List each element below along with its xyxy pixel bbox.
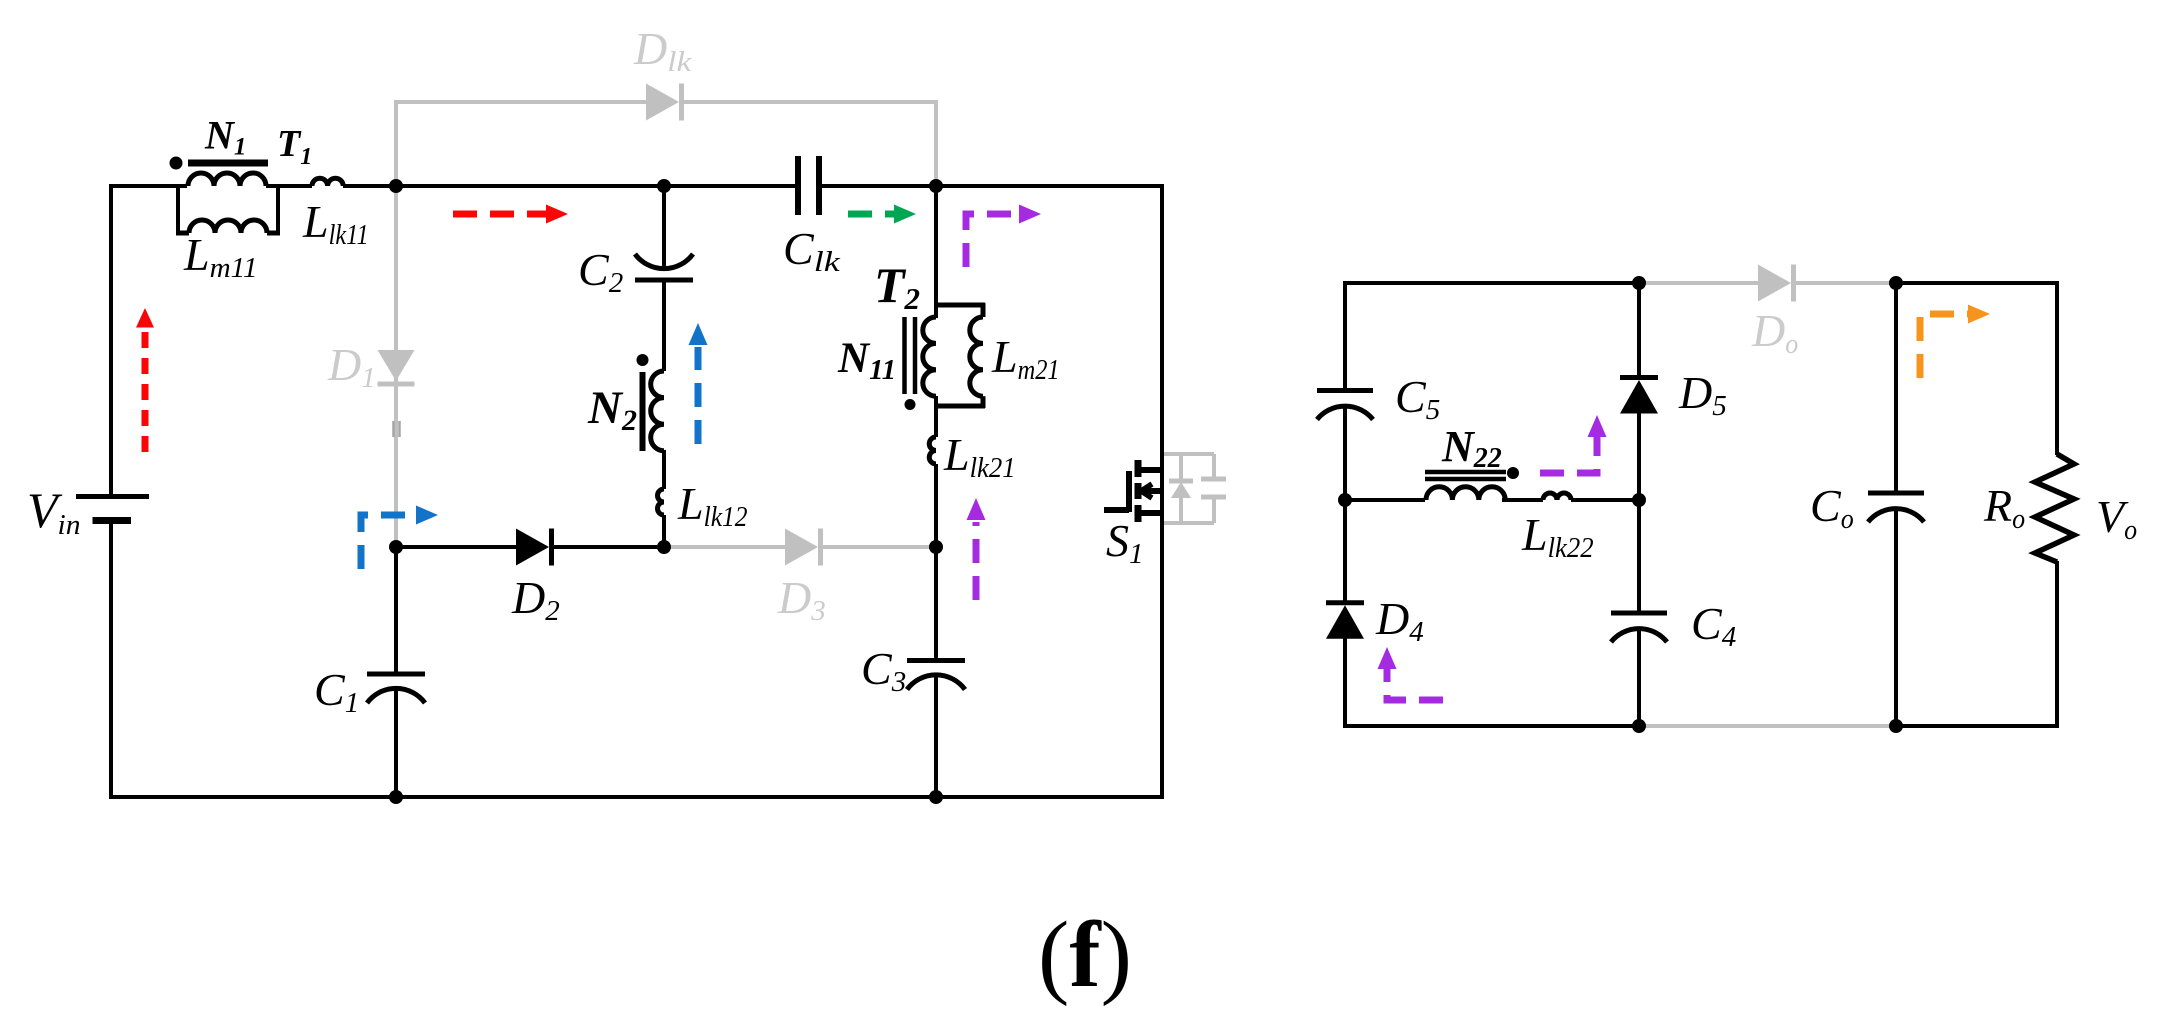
wire: top rail left segment <box>109 184 187 188</box>
diode D3 (gray) <box>785 529 821 566</box>
wire: mid node down to C4 <box>1637 500 1641 613</box>
node top Co branch <box>1889 276 1903 290</box>
label C3 <box>861 643 906 698</box>
svg-text:D1: D1 <box>327 339 376 394</box>
wire: right rail top (Ro lead) <box>2055 281 2059 455</box>
wire: C3 node down to C3 <box>934 547 938 660</box>
diode D4 (black, pointing up) <box>1326 603 1364 639</box>
label C1 <box>314 664 359 719</box>
label Llk12 <box>677 478 748 533</box>
svg-text:Vin: Vin <box>27 482 81 541</box>
T1 polarity dot <box>170 157 183 170</box>
wire: top rail to node A <box>343 184 795 188</box>
node mid D5/C4 <box>1632 493 1646 507</box>
winding N2 <box>651 371 664 451</box>
svg-text:Llk21: Llk21 <box>943 429 1016 484</box>
purple current arrow (C3 branch, vertical) <box>967 498 986 600</box>
svg-text:D2: D2 <box>511 572 560 627</box>
N2 polarity dot <box>637 354 649 366</box>
node top D5 branch <box>1632 276 1646 290</box>
label Vo <box>2096 491 2137 546</box>
voltage source Vin <box>76 497 149 521</box>
wire: D5 to mid node <box>1637 413 1641 500</box>
node bottom C4 branch <box>1632 719 1646 733</box>
blue current arrow (mid-left, L-shaped) <box>361 506 438 570</box>
label N11 <box>837 335 896 386</box>
capacitor C2 <box>635 254 693 280</box>
node bottom Co branch <box>1889 719 1903 733</box>
wire: gray top segment to Do <box>1639 281 1758 285</box>
svg-text:N22: N22 <box>1441 422 1502 474</box>
wire: node B down to C2 <box>662 186 666 270</box>
wire: top rail Co node to Ro <box>1896 281 2059 285</box>
inductor Llk22 <box>1543 493 1571 500</box>
wire: Llk21 to C3 node <box>934 464 938 547</box>
wire: D5 branch top lead <box>1637 283 1641 377</box>
wire: top rail node C to right rail <box>822 184 1164 188</box>
svg-text:T2: T2 <box>874 257 920 316</box>
caption (f) <box>1038 903 1132 1007</box>
capacitor C1 <box>367 674 425 703</box>
node mid left rail <box>1338 493 1352 507</box>
label Llk11 <box>302 196 369 251</box>
label D3 <box>777 572 826 627</box>
transformer T1 winding N1 <box>188 173 266 186</box>
svg-text:D4: D4 <box>1375 593 1424 648</box>
label C2 <box>578 244 623 299</box>
inductor Llk21 <box>929 437 936 464</box>
inductor Lm21 (right coil loop) <box>936 303 985 408</box>
wire: gray top loop right vertical <box>934 100 938 186</box>
wire: bottom rail <box>109 795 1164 799</box>
svg-text:Vo: Vo <box>2096 491 2137 546</box>
svg-text:Ro: Ro <box>1983 480 2025 535</box>
label D1 <box>327 339 376 394</box>
wire: gray top loop horizontal (left) <box>394 100 646 104</box>
wire: bottom rail right black segment <box>1896 724 2059 728</box>
svg-text:Co: Co <box>1810 480 1854 535</box>
node bottom-left (C1/bottom rail) <box>389 790 403 804</box>
label C4 <box>1691 598 1736 653</box>
green current arrow (through Clk) <box>848 205 916 224</box>
wire: gray top loop horizontal (right) <box>683 100 936 104</box>
wire: N22 to Llk22 <box>1502 498 1543 502</box>
svg-text:N2: N2 <box>587 382 637 437</box>
wire: mid-left node down to C1 <box>394 547 398 674</box>
label C5 <box>1395 371 1440 426</box>
transformer T2 winding (left coil) <box>923 317 936 396</box>
diode D2 <box>516 529 552 566</box>
wire: Co branch top lead <box>1894 283 1898 493</box>
wire: Llk12 to mid node <box>662 515 666 547</box>
wire: right rail <box>1160 184 1164 799</box>
wire: right circuit bottom rail (left black) <box>1343 724 1639 728</box>
wire: right circuit top rail (left black) <box>1343 281 1639 285</box>
svg-text:Llk12: Llk12 <box>677 478 748 533</box>
node mid-left (D1/C1/D2) <box>389 540 403 554</box>
capacitor Co <box>1868 493 1924 522</box>
purple current arrow (to S1, L-shaped) <box>966 205 1041 268</box>
wire: C3 to bottom rail <box>934 675 938 797</box>
inductor Llk12 <box>658 489 665 515</box>
label N2 <box>587 382 637 437</box>
wire: mid node to D2 <box>396 545 516 549</box>
label Llk22 <box>1521 509 1594 564</box>
wire: right rail bottom (Ro lead) <box>2055 561 2059 728</box>
label Ro <box>1983 480 2025 535</box>
wire: C2 to N2 <box>662 280 666 371</box>
svg-text:C1: C1 <box>314 664 359 719</box>
svg-text:(f): (f) <box>1038 903 1132 1007</box>
wire: left rail lower (Vin bottom lead) <box>109 521 113 800</box>
wire: N2 to Llk12 <box>662 450 666 489</box>
wire: D4 to bottom rail <box>1343 638 1347 728</box>
svg-text:Clk: Clk <box>783 223 841 278</box>
svg-text:Llk22: Llk22 <box>1521 509 1594 564</box>
wire: Co to bottom rail <box>1894 507 1898 726</box>
label Vin <box>27 482 81 541</box>
label D2 <box>511 572 560 627</box>
node C (top rail / T2 branch) <box>929 179 943 193</box>
label T1 <box>277 123 312 170</box>
diode D5 (black, pointing up) <box>1620 378 1658 414</box>
wire: mid rail left segment <box>1345 498 1425 502</box>
capacitor Clk <box>798 156 819 215</box>
purple current arrow (near D4, L-shaped) <box>1378 647 1444 700</box>
node mid-right (Llk21/D3/C3) <box>929 540 943 554</box>
svg-text:Dlk: Dlk <box>633 23 693 78</box>
node bottom-right (C3/bottom rail) <box>929 790 943 804</box>
svg-text:C3: C3 <box>861 643 906 698</box>
purple current arrow (above N22, L-shaped) <box>1540 415 1607 473</box>
wire: gray mid segment D3 to C3 node <box>823 545 936 549</box>
label Lm11 <box>183 229 258 284</box>
svg-text:N1: N1 <box>204 113 246 161</box>
svg-text:T1: T1 <box>277 123 312 170</box>
label Lm21 <box>991 331 1060 386</box>
wire: left rail upper (Vin top lead) <box>109 184 113 494</box>
diode D1 (gray, pointing down) <box>378 350 415 384</box>
S1 body diode + capacitance (gray) <box>1164 454 1226 523</box>
svg-text:C2: C2 <box>578 244 623 299</box>
svg-text:Llk11: Llk11 <box>302 196 369 251</box>
node A (top rail / D1 branch) <box>389 179 403 193</box>
inductor Lm11 (magnetizing, parallel loop) <box>176 186 280 233</box>
wire: gray top segment Do to Co node <box>1795 281 1896 285</box>
T1 core bar <box>188 160 268 167</box>
svg-text:C5: C5 <box>1395 371 1440 426</box>
svg-text:N11: N11 <box>837 335 896 386</box>
T2 core double bars <box>905 317 916 394</box>
red current arrow (input loop, vertical) <box>136 308 154 452</box>
label N1 <box>204 113 246 161</box>
resistor Ro <box>2035 454 2074 562</box>
wire: D2 to node B2 <box>554 545 664 549</box>
gray break tick on D1 branch <box>394 421 400 437</box>
svg-text:C4: C4 <box>1691 598 1736 653</box>
svg-text:Do: Do <box>1751 305 1798 360</box>
wire: C1 to bottom rail <box>394 689 398 797</box>
diode Dlk (gray) <box>646 84 682 121</box>
MOSFET S1 <box>1104 460 1163 522</box>
svg-text:Lm11: Lm11 <box>183 229 258 284</box>
diode Do (gray) <box>1758 265 1794 302</box>
wire: node C down to T2 <box>934 186 938 318</box>
label Clk <box>783 223 841 278</box>
wire: C4 to bottom rail <box>1637 628 1641 726</box>
svg-text:S1: S1 <box>1106 515 1144 570</box>
svg-text:Lm21: Lm21 <box>991 331 1060 386</box>
label D5 <box>1678 367 1727 422</box>
wire: bottom rail gray segment <box>1639 724 1896 728</box>
node B (top rail / C2 branch) <box>657 179 671 193</box>
label Llk21 <box>943 429 1016 484</box>
blue current arrow (N2 branch, vertical) <box>689 323 708 444</box>
label T2 <box>874 257 920 316</box>
red current arrow (top rail, horizontal) <box>453 205 568 224</box>
label S1 <box>1106 515 1144 570</box>
capacitor C3 <box>907 661 965 690</box>
orange current arrow (output, L-shaped) <box>1920 305 1990 379</box>
N2 core bar <box>640 372 646 451</box>
wire between N1 and Llk11 <box>266 184 312 188</box>
wire: Llk22 to mid node <box>1571 498 1639 502</box>
capacitor C5 <box>1317 391 1373 420</box>
winding N22 <box>1426 487 1505 500</box>
svg-text:D3: D3 <box>777 572 826 627</box>
label Co <box>1810 480 1854 535</box>
wire: gray D1 branch vertical <box>394 102 398 547</box>
label D4 <box>1375 593 1424 648</box>
svg-text:D5: D5 <box>1678 367 1727 422</box>
N22 polarity dot <box>1507 467 1519 479</box>
label Dlk <box>633 23 693 78</box>
N22 core double bars <box>1425 472 1506 479</box>
wire: C5 to D4 <box>1343 404 1347 601</box>
label Do <box>1751 305 1798 360</box>
wire: T2 to Llk21 <box>934 396 938 437</box>
wire: gray mid segment to D3 <box>664 545 785 549</box>
inductor Llk11 <box>312 178 343 186</box>
T2 polarity dot <box>905 399 916 410</box>
capacitor C4 <box>1611 613 1667 642</box>
node mid-center (Llk12/D2/D3) <box>657 540 671 554</box>
label N22 <box>1441 422 1502 474</box>
wire: left rail top (C5 lead) <box>1343 281 1347 390</box>
